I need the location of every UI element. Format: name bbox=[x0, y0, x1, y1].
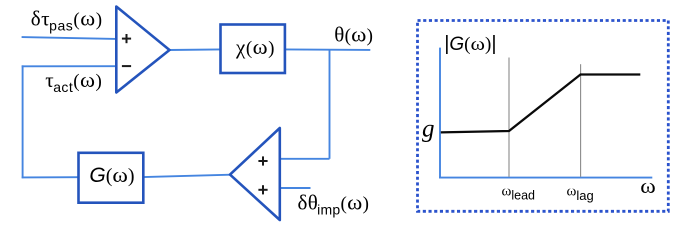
gridline at w_lead bbox=[508, 58, 510, 177]
label delta-theta_imp(w) bbox=[298, 191, 370, 218]
U2 bottom plus sign bbox=[258, 185, 267, 194]
wire: lower summing junction output to G(w) block bbox=[143, 175, 231, 177]
wire: chi block output to theta node bbox=[284, 48, 370, 51]
svg-text:χ(ω): χ(ω) bbox=[235, 35, 275, 59]
block chi(w) bbox=[221, 25, 285, 74]
gain curve |G(w)| bbox=[441, 75, 641, 133]
svg-text:G(ω): G(ω) bbox=[89, 163, 134, 187]
label |G(w)| y-axis title bbox=[444, 33, 496, 55]
U1 plus sign bbox=[122, 34, 131, 43]
wire: delta-theta_imp input to lower summing junction bbox=[280, 187, 311, 189]
svg-text:τact(ω): τact(ω) bbox=[45, 68, 102, 95]
summing junction U1 (plus/minus) bbox=[116, 7, 169, 93]
svg-text:ω: ω bbox=[640, 174, 656, 198]
dashed frame of bode plot bbox=[418, 21, 669, 212]
label delta-tau_pas(w) bbox=[31, 7, 103, 34]
wire: into lower summing junction top plus input bbox=[280, 158, 330, 160]
U2 top plus sign bbox=[258, 156, 267, 165]
summing junction U2 (plus/plus) bbox=[230, 128, 280, 220]
label w_lag tick bbox=[567, 184, 594, 203]
gridline at w_lag bbox=[580, 64, 582, 177]
label tau_act(w) bbox=[45, 68, 102, 95]
wire: summing junction output to chi block bbox=[169, 48, 221, 51]
label w x-axis bbox=[640, 174, 656, 198]
wire: tau_act feedback into summing junction minus input bbox=[22, 65, 116, 67]
wire: left vertical feedback segment bbox=[22, 65, 24, 178]
wire: delta-tau_pas input to summing junction bbox=[22, 37, 116, 39]
block G(w) bbox=[79, 153, 144, 203]
x-axis bbox=[439, 177, 652, 179]
y-axis bbox=[439, 48, 441, 179]
svg-text:θ(ω): θ(ω) bbox=[334, 23, 373, 47]
svg-text:g: g bbox=[422, 115, 435, 142]
label theta(w) output node bbox=[334, 23, 373, 47]
wire: bottom-left horizontal into G(w) block bbox=[22, 176, 79, 178]
svg-text:|G(ω)|: |G(ω)| bbox=[444, 33, 496, 55]
label w_lead tick bbox=[502, 184, 536, 203]
label g on y-axis bbox=[422, 115, 435, 142]
wire: vertical drop from theta node bbox=[329, 50, 331, 159]
U1 minus sign bbox=[122, 65, 131, 67]
